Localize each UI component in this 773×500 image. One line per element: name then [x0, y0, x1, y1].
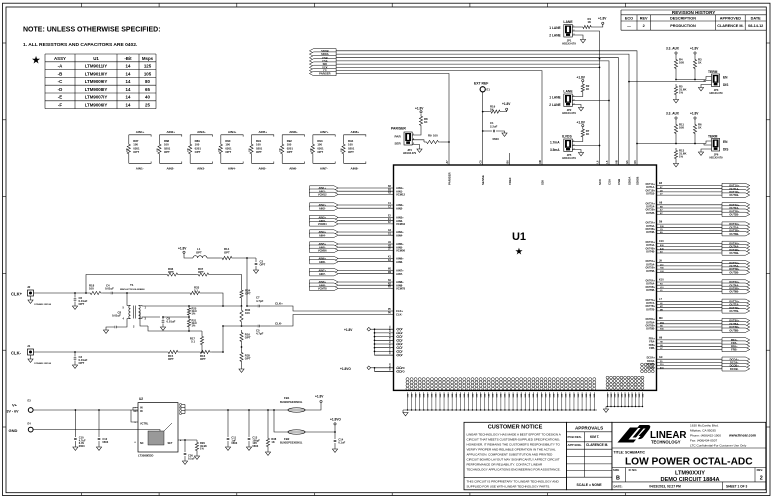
resistor R16 OPT: [198, 350, 224, 360]
svg-text:HD1X3-079: HD1X3-079: [562, 42, 576, 46]
svg-text:J2: J2: [27, 285, 31, 289]
resistor R91 AIN5 termination: [249, 130, 274, 170]
power +1.8V feed to U1: [344, 325, 403, 357]
net AIN8+ input arrow and wire: [310, 280, 405, 284]
svg-text:AIN6-: AIN6-: [396, 260, 403, 264]
svg-text:OUT5B-: OUT5B-: [729, 270, 739, 274]
net CLK- wire to U1: [270, 315, 394, 327]
svg-text:2.2uF: 2.2uF: [490, 124, 498, 128]
resistor R5 31.6K: [674, 84, 686, 97]
svg-text:OUT5B-: OUT5B-: [646, 270, 655, 273]
power +1.8VO feed to U1: [340, 362, 405, 373]
net FRB- arrow: [722, 347, 750, 351]
svg-text:1K: 1K: [424, 120, 428, 124]
date field: [614, 485, 748, 489]
svg-text:NC: NC: [140, 442, 144, 445]
svg-text:1K: 1K: [588, 20, 592, 24]
svg-text:Fax: (408)434-0507: Fax: (408)434-0507: [690, 439, 717, 443]
svg-text:SDI: SDI: [540, 180, 544, 185]
svg-text:ECO: ECO: [625, 16, 633, 20]
net AIN3+ input arrow and wire: [310, 215, 405, 219]
svg-text:5.1: 5.1: [191, 339, 195, 343]
pin M5 CSB: [616, 160, 621, 185]
jumper JP5 ILVDS: [550, 135, 576, 161]
svg-text:SER: SER: [395, 142, 402, 146]
capacitor C8 0.01uF: [103, 311, 127, 334]
svg-text:NOTE: UNLESS OTHERWISE SPECIFI: NOTE: UNLESS OTHERWISE SPECIFIED:: [23, 27, 161, 34]
resistor R18 100: [88, 284, 103, 295]
svg-text:APP ENG.: APP ENG.: [568, 443, 582, 447]
net OUT6A- arrow: [722, 283, 750, 287]
capacitor C6 0.01uF OPT: [72, 293, 87, 309]
wire node B to secondary: [222, 325, 241, 327]
resistor R8 1K: [412, 114, 428, 136]
svg-text:CLK+: CLK+: [11, 292, 23, 297]
resistor R33 5.1: [127, 285, 223, 306]
svg-text:VREF: VREF: [508, 177, 512, 185]
svg-text:+1.8V: +1.8V: [577, 76, 586, 80]
svg-text:KIM T.: KIM T.: [590, 435, 599, 439]
svg-text:SUPPLIED FOR USE WITH LINEAR T: SUPPLIED FOR USE WITH LINEAR TECHNOLOGY …: [467, 484, 551, 488]
svg-text:25: 25: [145, 103, 150, 108]
net group OUT1A output wires: [646, 182, 723, 196]
resistor R14 OPT: [220, 247, 256, 259]
pin D6 SDOB: [634, 160, 639, 185]
svg-text:14: 14: [126, 79, 131, 84]
svg-text:OPT: OPT: [287, 150, 293, 154]
svg-text:1K: 1K: [586, 87, 590, 91]
capacitor C13 100pF: [246, 409, 260, 450]
svg-text:OPT: OPT: [79, 361, 85, 365]
net group FRA output wires: [649, 337, 722, 351]
svg-text:VCM56: VCM56: [396, 249, 405, 253]
svg-text:LT3080EDD: LT3080EDD: [138, 454, 153, 458]
svg-text:FRB-: FRB-: [649, 347, 655, 350]
svg-text:E4: E4: [28, 422, 32, 426]
svg-text:OPT: OPT: [168, 357, 174, 361]
svg-text:OPT: OPT: [348, 150, 354, 154]
svg-text:65: 65: [145, 87, 150, 92]
net AIN1+ input arrow and wire: [310, 186, 405, 190]
ground at JP2: [572, 105, 583, 111]
svg-text:CLK-: CLK-: [396, 313, 403, 317]
svg-text:VCTRL: VCTRL: [140, 423, 149, 426]
resistor R7 1K: [572, 127, 589, 142]
U1 ground pin array (main): [406, 378, 596, 391]
svg-text:WBC4-6TY6109-009B08: WBC4-6TY6109-009B08: [120, 288, 145, 291]
svg-text:LTM9009IY: LTM9009IY: [85, 79, 108, 84]
net SDI arrow: [309, 62, 336, 66]
svg-text:SDOA: SDOA: [627, 176, 631, 185]
svg-text:100: 100: [433, 134, 438, 138]
ground at JP5: [572, 150, 583, 156]
Linear Technology logo: [618, 425, 687, 445]
svg-text:LANE: LANE: [563, 20, 573, 24]
svg-text:+1.8V: +1.8V: [598, 17, 607, 21]
resistor R6 1K: [693, 117, 702, 144]
resistor R88 AIN2 termination: [157, 130, 182, 170]
svg-text:0.1uF: 0.1uF: [188, 456, 195, 460]
svg-text:14: 14: [126, 87, 131, 92]
svg-text:AIN2-: AIN2-: [319, 206, 326, 210]
title block frame: [612, 422, 766, 490]
ferrite bead FB1: [280, 396, 310, 412]
svg-text:04/23/2013, 03:27 PM: 04/23/2013, 03:27 PM: [649, 485, 681, 489]
net AIN8- input arrow and wire: [310, 283, 404, 287]
svg-text:TERM: TERM: [708, 135, 718, 139]
svg-text:★: ★: [32, 55, 41, 65]
net FRA+ arrow: [722, 338, 750, 342]
net group OUT4A output wires: [646, 240, 723, 254]
svg-text:14: 14: [126, 103, 131, 108]
capacitor C36 0.1uF: [182, 440, 195, 464]
capacitor C7 4.7pF: [247, 296, 270, 308]
svg-text:1%: 1%: [679, 155, 684, 159]
svg-text:LINEAR TECHNOLOGY HAS MADE A B: LINEAR TECHNOLOGY HAS MADE A BEST EFFORT…: [467, 432, 562, 436]
svg-text:E1: E1: [487, 88, 491, 92]
svg-text:REV.: REV.: [757, 468, 763, 472]
svg-text:1K: 1K: [586, 132, 590, 136]
terminal E4 GND: [9, 422, 34, 433]
net SCK arrow: [309, 65, 336, 69]
net CLK+ wire to U1: [270, 302, 394, 312]
ground at main bus: [403, 410, 408, 416]
svg-text:4.7pF: 4.7pF: [256, 332, 264, 336]
net group OUT8A output wires: [646, 317, 723, 331]
svg-text:SCALE = NONE: SCALE = NONE: [577, 483, 603, 487]
net group OUT5A output wires: [646, 259, 723, 273]
wire bias to node A: [246, 258, 248, 307]
connector J2 CLK+: [11, 285, 52, 306]
svg-text:CIRCUIT BOARD LAYOUT MAY SIGNI: CIRCUIT BOARD LAYOUT MAY SIGNIFICANTLY A…: [467, 458, 560, 462]
svg-text:E3: E3: [28, 399, 32, 403]
ground at JP4: [412, 145, 422, 153]
svg-text:GND: GND: [9, 428, 18, 433]
net AIN7- input arrow and wire: [310, 272, 404, 276]
svg-text:R9: R9: [428, 134, 432, 138]
svg-text:LTM9011IY: LTM9011IY: [85, 64, 107, 69]
power +1.8V clock bias: [178, 246, 193, 258]
svg-text:EN: EN: [723, 140, 728, 144]
svg-text:0.01uF: 0.01uF: [167, 320, 176, 324]
net VCM12 input arrow and wire: [310, 192, 406, 197]
svg-text:+1.8V: +1.8V: [315, 395, 324, 399]
wire center tap: [148, 326, 202, 332]
resistor R90 AIN4 termination: [218, 130, 243, 170]
wire JP1 pin2 to SCK net: [572, 31, 600, 64]
resistor R15 OPT: [166, 350, 198, 360]
svg-text:1K: 1K: [698, 61, 702, 65]
svg-text:ASSY: ASSY: [54, 56, 66, 61]
svg-text:0603: 0603: [493, 137, 500, 141]
wire CLK- main: [34, 351, 167, 353]
svg-text:HD1X3-079: HD1X3-079: [709, 92, 723, 95]
svg-text:OPT: OPT: [245, 336, 251, 340]
svg-text:2 LANE: 2 LANE: [549, 34, 560, 38]
svg-text:AIN7-: AIN7-: [396, 272, 403, 276]
svg-text:PCB DES.: PCB DES.: [568, 435, 582, 439]
svg-text:OUT6B-: OUT6B-: [646, 289, 655, 292]
net FRA- arrow: [722, 341, 750, 345]
U1 ground pin array (aux): [606, 376, 644, 389]
svg-text:+1.8V: +1.8V: [415, 107, 424, 111]
resistor R37 OPT: [196, 267, 242, 288]
svg-text:CSB: CSB: [617, 179, 621, 185]
svg-text:VCM78: VCM78: [396, 287, 405, 291]
ground at aux bus: [603, 407, 608, 413]
svg-text:1630 McCarthy Blvd.: 1630 McCarthy Blvd.: [690, 424, 719, 428]
svg-text:2: 2: [760, 476, 763, 482]
jumper JP2 LANE: [549, 90, 576, 116]
net OUT6B- arrow: [722, 289, 750, 293]
resistor R38 1K: [265, 409, 276, 455]
wire CLK+ main: [34, 292, 89, 294]
svg-text:0603: 0603: [102, 440, 108, 444]
svg-text:TECHNOLOGY: TECHNOLOGY: [651, 440, 681, 445]
svg-text:U1: U1: [93, 56, 99, 61]
svg-text:AIN4+: AIN4+: [228, 130, 237, 134]
svg-text:LTM90XXIY: LTM90XXIY: [675, 470, 705, 476]
svg-text:—: —: [627, 24, 631, 28]
net OUT1A- arrow: [722, 187, 750, 191]
svg-text:0603: 0603: [231, 441, 237, 445]
svg-text:0.01uF: 0.01uF: [112, 314, 121, 318]
svg-text:DATE: DATE: [751, 16, 762, 20]
svg-text:OUT7B-: OUT7B-: [646, 308, 655, 311]
svg-text:3.3_AUX: 3.3_AUX: [666, 112, 680, 116]
svg-text:K10: K10: [659, 279, 664, 282]
net OUT5A+ arrow: [722, 261, 750, 265]
wire TERM JP6 bus: [636, 143, 706, 145]
svg-text:OUT7B-: OUT7B-: [729, 309, 739, 313]
resistor R11 10K: [674, 117, 684, 144]
net OUT5A- arrow: [722, 264, 750, 268]
jumper JP1 LANE: [549, 20, 576, 46]
svg-text:TECHNOLOGY APPLICATIONS ENGINE: TECHNOLOGY APPLICATIONS ENGINEERING FOR …: [467, 468, 561, 472]
resistor R1 1K: [572, 17, 593, 28]
svg-text:DIS: DIS: [723, 148, 728, 152]
svg-text:★: ★: [515, 247, 523, 256]
resistor R4 10K: [674, 52, 684, 80]
svg-text:OUT3B-: OUT3B-: [646, 231, 655, 234]
svg-text:VCM12: VCM12: [318, 193, 327, 197]
approvals box: [566, 422, 612, 490]
pin P5 CLK+ inner label: [388, 309, 404, 313]
net DCOB- arrow: [722, 367, 750, 371]
svg-text:OUT2B-: OUT2B-: [646, 212, 655, 215]
resistor R30 100: [240, 307, 251, 325]
svg-text:OPT: OPT: [256, 150, 262, 154]
svg-text:-B: -B: [58, 71, 63, 76]
svg-text:AIN2+: AIN2+: [166, 130, 175, 134]
resistor R34 OPT: [240, 288, 251, 306]
svg-text:REVISION HISTORY: REVISION HISTORY: [672, 10, 715, 15]
svg-text:T1: T1: [130, 283, 134, 287]
svg-text:100: 100: [89, 287, 94, 291]
svg-text:CLARENCE M.: CLARENCE M.: [586, 443, 608, 447]
net OUT2B+ arrow: [722, 209, 750, 213]
svg-text:DCOB-: DCOB-: [730, 367, 739, 371]
svg-text:CSA: CSA: [607, 178, 611, 185]
wire node B branch: [222, 326, 224, 352]
svg-text:AIN4-: AIN4-: [319, 233, 326, 237]
power +1.8V at R1: [593, 17, 607, 27]
svg-text:DEMO CIRCUIT 1884A: DEMO CIRCUIT 1884A: [660, 477, 719, 483]
resistor R94 AIN8 termination: [341, 130, 366, 170]
svg-text:VCM12: VCM12: [396, 193, 405, 197]
revision history table: [621, 10, 766, 30]
test point E1 EXT REF: [474, 82, 490, 166]
svg-text:IC NO.: IC NO.: [629, 468, 638, 472]
bypass wire upper: [86, 275, 165, 294]
net OUT4A+ arrow: [722, 241, 750, 245]
svg-text:J1: J1: [27, 344, 31, 348]
svg-text:C10: C10: [659, 240, 664, 243]
svg-text:3.3_AUX: 3.3_AUX: [666, 47, 680, 51]
svg-text:125: 125: [144, 64, 152, 69]
svg-text:08-14-12: 08-14-12: [748, 24, 763, 28]
net OUT5B- arrow: [722, 270, 750, 274]
svg-text:DESCRIPTION: DESCRIPTION: [670, 16, 696, 20]
ground at R5: [673, 97, 678, 103]
svg-text:VCM34: VCM34: [396, 222, 405, 226]
jumper JP3 TERM: [704, 70, 728, 95]
ferrite bead FB2: [280, 430, 310, 445]
svg-text:OUT1B-: OUT1B-: [646, 193, 655, 196]
net OUT2A+ arrow: [722, 203, 750, 207]
svg-text:PAR/SER: PAR/SER: [447, 171, 451, 185]
svg-text:OPT: OPT: [260, 263, 266, 267]
svg-text:-C: -C: [58, 79, 63, 84]
svg-text:Milpitas, CA 95035: Milpitas, CA 95035: [690, 429, 716, 433]
ground at R13: [673, 161, 678, 167]
svg-text:TITLE: SCHEMATIC: TITLE: SCHEMATIC: [614, 451, 646, 455]
svg-text:-F: -F: [58, 103, 62, 108]
svg-text:M9: M9: [659, 317, 663, 320]
svg-text:1K: 1K: [271, 440, 274, 444]
svg-text:10K: 10K: [679, 126, 684, 130]
svg-text:OPT: OPT: [224, 250, 230, 254]
svg-text:OPT: OPT: [245, 357, 251, 361]
svg-text:VCM34: VCM34: [318, 222, 327, 226]
pin A7 PAR/SER: [446, 160, 451, 185]
wire PAR/SER to pin A7: [448, 141, 450, 165]
net FRB+ arrow: [722, 344, 750, 348]
svg-text:OPT: OPT: [164, 150, 170, 154]
svg-text:1K: 1K: [698, 126, 702, 130]
svg-text:AIN7-: AIN7-: [319, 272, 326, 276]
svg-text:AIN8-: AIN8-: [351, 167, 359, 171]
capacitor C1 2.2uF: [482, 121, 505, 141]
pin M6 SDI: [539, 160, 544, 185]
svg-text:AIN4-: AIN4-: [396, 233, 403, 237]
svg-text:CUSTOMER NOTICE: CUSTOMER NOTICE: [488, 425, 543, 431]
svg-text:OPT: OPT: [317, 150, 323, 154]
capacitor C10 4.7uF: [73, 410, 86, 450]
net OUT3A+ arrow: [722, 222, 750, 226]
net OUT8A- arrow: [722, 322, 750, 326]
svg-text:PAR/SER: PAR/SER: [391, 127, 406, 131]
capacitor C3 0.01uF: [72, 352, 87, 368]
svg-text:V+: V+: [12, 402, 18, 407]
svg-text:OPT: OPT: [133, 150, 139, 154]
svg-text:AIN7-: AIN7-: [320, 167, 328, 171]
net DCOA+ arrow: [722, 357, 750, 361]
svg-text:OPT: OPT: [79, 302, 85, 306]
wire GND rail: [33, 430, 163, 437]
svg-text:4.7pF: 4.7pF: [256, 299, 264, 303]
net OUT4A- arrow: [722, 244, 750, 248]
svg-text:100: 100: [245, 311, 250, 315]
net AIN6- input arrow and wire: [310, 260, 404, 264]
svg-text:APPROVALS: APPROVALS: [575, 426, 603, 431]
svg-text:OUT1B-: OUT1B-: [729, 193, 739, 197]
svg-text:SENSE: SENSE: [481, 175, 485, 185]
svg-text:-D: -D: [58, 87, 63, 92]
svg-text:LTM9006IY: LTM9006IY: [85, 103, 108, 108]
svg-text:AIN5-: AIN5-: [259, 167, 267, 171]
resistor R35 OPT: [239, 344, 251, 372]
svg-text:APPROVED: APPROVED: [720, 16, 742, 20]
regulator U2 LT3080EDD: [131, 397, 182, 458]
svg-text:CLK+: CLK+: [396, 309, 404, 313]
net OUT8B+ arrow: [722, 325, 750, 329]
U1 ground bus wires (main): [403, 392, 597, 410]
svg-text:AIN6-: AIN6-: [289, 167, 297, 171]
net OUT3B+ arrow: [722, 228, 750, 232]
svg-text:LTM9008IY: LTM9008IY: [85, 87, 108, 92]
resistor R89 AIN3 termination: [188, 130, 213, 170]
assembly option table: [45, 54, 156, 109]
svg-text:AIN3+: AIN3+: [197, 130, 206, 134]
svg-text:SIZE: SIZE: [613, 468, 619, 472]
resistor R13 31.6K: [674, 148, 686, 161]
pin L5 CSA: [606, 160, 611, 185]
net OUT2A- arrow: [722, 206, 750, 210]
svg-text:-Bit: -Bit: [124, 56, 132, 61]
svg-text:3V - 6V: 3V - 6V: [7, 410, 20, 414]
svg-text:OUT3B-: OUT3B-: [729, 232, 739, 236]
svg-text:1 LANE: 1 LANE: [549, 95, 560, 99]
customer notice box: [464, 422, 566, 490]
svg-text:OUT4B-: OUT4B-: [729, 251, 739, 255]
svg-text:0603: 0603: [252, 444, 258, 448]
svg-text:CLK+: CLK+: [275, 302, 283, 306]
jumper JP4 PAR/SER: [391, 127, 417, 155]
svg-text:IN: IN: [140, 407, 143, 410]
svg-text:SDOB: SDOB: [635, 177, 639, 185]
net AIN2+ input arrow and wire: [310, 203, 405, 207]
net SDOA arrow: [309, 52, 336, 56]
ground at JP6: [698, 149, 711, 155]
svg-text:LANE: LANE: [563, 90, 573, 94]
svg-text:0603: 0603: [79, 444, 85, 448]
svg-text:CONN65-132124: CONN65-132124: [34, 303, 52, 306]
net OUT7B- arrow: [722, 309, 750, 313]
svg-text:LOW POWER OCTAL-ADC: LOW POWER OCTAL-ADC: [625, 457, 753, 468]
svg-text:AIN5+: AIN5+: [259, 130, 268, 134]
resistor R36 OPT: [165, 267, 196, 276]
power +1.8V at R2: [577, 76, 586, 82]
svg-text:CLK-: CLK-: [11, 351, 22, 356]
svg-text:105: 105: [144, 71, 152, 76]
svg-text:LTC Confidential-For Customer: LTC Confidential-For Customer Use Only: [690, 444, 747, 448]
svg-text:+1.8V: +1.8V: [690, 47, 699, 51]
svg-text:+1.8VO: +1.8VO: [330, 417, 341, 421]
power +1.8V at R7: [577, 121, 586, 127]
capacitor C5 4.7pF: [242, 325, 271, 336]
svg-text:AIN1-: AIN1-: [136, 167, 144, 171]
